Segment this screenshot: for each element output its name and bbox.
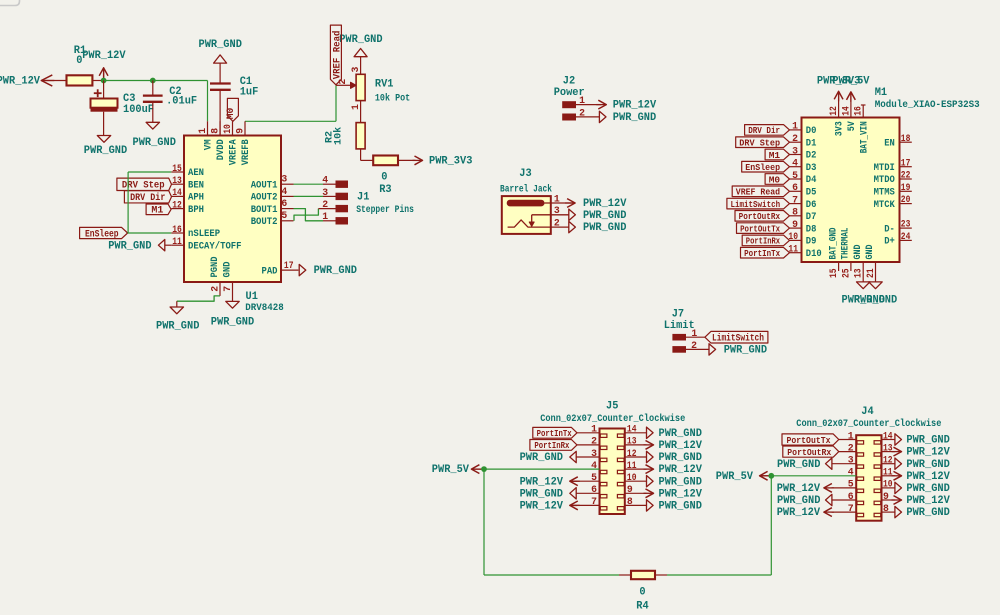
pin 11 DECAY/TOFF — [171, 236, 241, 252]
net label DRV Step (M1) — [736, 137, 790, 149]
svg-text:PGND: PGND — [209, 257, 221, 278]
label R1 — [74, 45, 87, 57]
pin 14 5V — [840, 94, 858, 132]
svg-text:J1: J1 — [357, 192, 370, 204]
svg-text:PWR_GND: PWR_GND — [659, 428, 703, 440]
svg-text:PWR_GND: PWR_GND — [659, 476, 703, 488]
svg-text:7: 7 — [591, 496, 597, 507]
svg-text:M0: M0 — [769, 174, 781, 185]
pin name VREFA — [228, 139, 240, 166]
label R4 — [636, 600, 649, 612]
svg-text:PWR_GND: PWR_GND — [659, 452, 703, 464]
svg-text:PWR_GND: PWR_GND — [583, 210, 627, 222]
svg-text:Limit: Limit — [664, 320, 695, 332]
value 0 (R3) — [381, 172, 387, 184]
svg-text:PWR_12V: PWR_12V — [613, 100, 657, 112]
J4 pin 4 wire — [771, 467, 856, 478]
ground PWR_GND (C2) — [133, 122, 177, 149]
svg-text:BAT_VIN: BAT_VIN — [858, 121, 870, 153]
svg-text:18: 18 — [901, 133, 911, 144]
svg-text:R4: R4 — [636, 600, 649, 612]
svg-text:10: 10 — [222, 124, 233, 134]
pin name VM — [203, 139, 215, 150]
net label VREF Read (M1) — [732, 186, 789, 198]
svg-text:DRV8428: DRV8428 — [245, 302, 283, 314]
potentiometer RV1 — [356, 57, 365, 123]
svg-text:J4: J4 — [861, 406, 874, 418]
svg-text:12: 12 — [172, 199, 182, 210]
M1 pin 3 D2 — [790, 145, 817, 161]
J3 sleeve arrow — [529, 215, 569, 227]
ground PWR_GND (J3.3) — [569, 209, 627, 222]
svg-text:AEN: AEN — [188, 167, 204, 179]
net label M0 — [226, 98, 238, 121]
M1 pin 11 D10 — [788, 244, 821, 260]
J5 pin 12 + PWR_GND — [625, 448, 703, 464]
svg-text:PWR_5V: PWR_5V — [832, 76, 870, 88]
svg-text:PWR_5V: PWR_5V — [432, 464, 470, 476]
svg-text:3: 3 — [848, 455, 854, 466]
M1 pin 24 D+ — [884, 231, 912, 248]
M1 pin 20 MTCK — [874, 194, 912, 211]
M1 pin 18 EN — [884, 133, 912, 150]
svg-text:Conn_02x07_Counter_Clockwise: Conn_02x07_Counter_Clockwise — [796, 418, 941, 430]
connector J3 labels — [500, 168, 552, 195]
power symbol PWR_12V (J2.1) — [596, 100, 656, 112]
svg-text:VREFA: VREFA — [228, 139, 240, 166]
net label M0 (M1) — [765, 174, 789, 186]
svg-text:DRV Dir: DRV Dir — [130, 192, 165, 204]
ground PWR_GND (M1 pin13) — [842, 282, 886, 306]
svg-text:GND: GND — [221, 262, 233, 278]
label J4 — [861, 406, 874, 418]
wire BOUT1 to J1.1 — [294, 209, 336, 221]
power symbol PWR_3V3 (right of R3) — [398, 156, 472, 168]
wire EnSleep to AEN — [128, 172, 171, 233]
wire J2.1 — [576, 104, 601, 106]
net label EnSleep (M1) — [742, 161, 790, 173]
svg-text:1: 1 — [554, 193, 560, 204]
value .01uF — [166, 96, 197, 108]
svg-text:5: 5 — [848, 479, 854, 490]
svg-text:VM: VM — [203, 139, 215, 150]
label U1 — [246, 291, 259, 303]
svg-text:PortInTx: PortInTx — [537, 428, 572, 439]
ground PWR_GND (U1 GND pin) — [211, 301, 255, 328]
pin 16 nSLEEP — [171, 224, 220, 240]
svg-text:10: 10 — [627, 472, 637, 483]
pin 9 VREFB — [234, 121, 245, 135]
svg-text:7: 7 — [848, 503, 854, 514]
net label LimitSwitch — [705, 331, 768, 344]
svg-text:M1: M1 — [151, 206, 163, 217]
svg-text:6: 6 — [848, 491, 854, 502]
resistor R1 — [67, 75, 93, 85]
svg-text:100uF: 100uF — [123, 104, 154, 116]
svg-text:14: 14 — [840, 106, 851, 116]
svg-text:PWR_GND: PWR_GND — [906, 459, 950, 471]
svg-text:6: 6 — [281, 198, 287, 209]
pin 17 PAD — [262, 260, 299, 277]
svg-text:4: 4 — [848, 467, 854, 478]
J5 pin 13 + PWR_12V — [625, 436, 703, 452]
svg-text:D2: D2 — [806, 150, 817, 162]
svg-text:BAT_GND: BAT_GND — [827, 228, 839, 260]
svg-text:J3: J3 — [519, 168, 531, 180]
svg-text:D-: D- — [884, 223, 895, 235]
svg-text:PWR_GND: PWR_GND — [108, 241, 152, 253]
label DRV Dir (U1) — [124, 191, 171, 205]
svg-text:THERMAL: THERMAL — [840, 228, 852, 260]
power flag PWR_12V (left of R1) — [0, 75, 67, 88]
M1 pin 19 MTMS — [874, 182, 912, 199]
svg-text:12: 12 — [828, 106, 839, 116]
svg-text:5: 5 — [591, 472, 597, 483]
value 0 (R1) — [76, 55, 82, 67]
svg-text:3: 3 — [281, 174, 287, 185]
svg-text:D10: D10 — [806, 248, 822, 260]
M1 pin 7 D6 — [790, 194, 817, 210]
wire R1 to node — [92, 80, 103, 82]
svg-text:PWR_GND: PWR_GND — [84, 145, 128, 157]
wire J7.1 — [686, 336, 705, 338]
svg-text:11: 11 — [627, 460, 637, 471]
junction node A — [101, 78, 107, 84]
J5 pin 1 + PortInTx — [533, 424, 600, 440]
svg-text:13: 13 — [172, 175, 182, 186]
ground PWR_GND (DECAY/TOFF) — [108, 240, 171, 253]
svg-text:24: 24 — [901, 231, 911, 242]
svg-text:1: 1 — [350, 104, 361, 110]
svg-text:13: 13 — [883, 442, 893, 453]
RV1 pin 1 number — [350, 104, 361, 110]
svg-text:M0: M0 — [226, 108, 237, 120]
svg-text:PWR_GND: PWR_GND — [659, 501, 703, 513]
svg-text:BOUT1: BOUT1 — [251, 204, 278, 216]
J5 pin 6 + PWR_GND — [520, 484, 600, 500]
svg-text:15: 15 — [828, 268, 839, 278]
J5 pin 8 + PWR_GND — [625, 496, 703, 512]
label C2 — [169, 86, 181, 98]
net label VREF Read (vertical) — [330, 25, 343, 85]
ground PWR_GND (PAD) — [299, 264, 357, 277]
svg-text:D6: D6 — [806, 199, 817, 211]
value 10k Pot — [375, 93, 410, 105]
resistor R2 — [356, 123, 365, 149]
net label PortOutTx (M1) — [737, 223, 790, 235]
svg-text:2: 2 — [848, 442, 854, 453]
svg-text:EnSleep: EnSleep — [745, 162, 780, 173]
M1 pin 2 D1 — [790, 133, 817, 149]
label EnSleep (U1) — [80, 227, 128, 240]
svg-text:11: 11 — [172, 236, 182, 247]
svg-text:D0: D0 — [806, 125, 817, 137]
power symbol PWR_5V (J5) — [432, 464, 484, 476]
label C3 — [123, 93, 135, 105]
svg-text:1: 1 — [591, 424, 597, 435]
M1 pin 1 D0 — [790, 121, 817, 137]
svg-text:5: 5 — [281, 210, 287, 221]
wire PGND to ground — [177, 296, 220, 301]
connector J7 pin 2 pad — [672, 340, 697, 353]
svg-text:25: 25 — [840, 268, 851, 278]
value Conn_02x07_Counter_Clockwise (J4) — [796, 418, 941, 430]
svg-text:1: 1 — [792, 121, 798, 132]
svg-text:D3: D3 — [806, 162, 817, 174]
wire AOUT2 to J1.3 — [294, 195, 336, 197]
J4 pin 3 + PWR_GND — [777, 455, 856, 471]
svg-text:D+: D+ — [884, 236, 895, 248]
svg-text:PortInTx: PortInTx — [744, 248, 780, 259]
svg-text:J2: J2 — [563, 76, 575, 88]
value Conn_02x07_Counter_Clockwise (J5) — [540, 413, 685, 425]
J4 pin 11 + PWR_12V — [882, 467, 951, 483]
pin 15 AEN — [171, 163, 204, 179]
svg-text:4: 4 — [591, 460, 597, 471]
ground PWR_GND (J7.2) — [709, 344, 768, 357]
svg-text:AOUT1: AOUT1 — [251, 179, 278, 191]
junction J5 pin4 — [481, 466, 487, 472]
label C1 — [240, 76, 253, 88]
capacitor C2 — [143, 81, 163, 123]
M1 pin 21 GND — [864, 245, 876, 282]
J4 pin 7 + PWR_12V — [777, 503, 857, 519]
J3 sleeve zigzag — [508, 220, 569, 227]
J5 pin 7 + PWR_12V — [520, 496, 600, 512]
svg-text:1: 1 — [197, 128, 208, 134]
svg-text:PWR_GND: PWR_GND — [211, 317, 255, 329]
J4 pin 8 + PWR_GND — [882, 503, 951, 519]
svg-text:LimitSwitch: LimitSwitch — [731, 199, 781, 210]
svg-text:DVDD: DVDD — [215, 139, 227, 160]
RV1 pin 2 number — [337, 79, 348, 85]
svg-text:8: 8 — [627, 496, 633, 507]
M1 pin 5 D4 — [790, 170, 817, 186]
net label M1 (M1) — [765, 149, 789, 161]
power symbol PWR_3V3 (M1) — [817, 76, 860, 102]
value Module_XIAO-ESP32S3 — [875, 99, 980, 111]
svg-text:8: 8 — [883, 503, 889, 514]
svg-text:PWR_12V: PWR_12V — [82, 50, 126, 62]
svg-text:Stepper Pins: Stepper Pins — [356, 204, 414, 216]
svg-text:VREFB: VREFB — [240, 139, 252, 166]
svg-text:PWR_12V: PWR_12V — [906, 447, 950, 459]
svg-text:PWR_GND: PWR_GND — [777, 495, 821, 507]
value 100uF — [123, 104, 154, 116]
J4 pin 6 + PWR_GND — [777, 491, 856, 507]
ground PWR_GND (C3) — [84, 136, 128, 158]
svg-text:2: 2 — [591, 436, 597, 447]
svg-text:PWR_GND: PWR_GND — [156, 321, 200, 333]
J3 pin 2 — [554, 218, 560, 229]
svg-text:1uF: 1uF — [240, 87, 259, 99]
pin 5 BOUT2 — [251, 210, 294, 228]
svg-text:J7: J7 — [672, 309, 684, 321]
svg-text:13: 13 — [853, 268, 864, 278]
svg-text:PWR_5V: PWR_5V — [716, 471, 754, 483]
J4 pin 1 + PortOutTx — [782, 430, 856, 446]
svg-text:PWR_12V: PWR_12V — [659, 464, 703, 476]
sheet corner decoration (gray) — [0, 0, 20, 6]
value DRV8428 — [245, 302, 283, 314]
svg-text:23: 23 — [901, 219, 911, 230]
M1 pin 22 MTDO — [874, 170, 912, 187]
svg-text:PWR_3V3: PWR_3V3 — [429, 156, 472, 168]
svg-text:D9: D9 — [806, 236, 817, 248]
svg-text:D1: D1 — [806, 137, 817, 149]
label M1 (U1) — [146, 204, 171, 217]
svg-text:12: 12 — [883, 455, 893, 466]
connector J1 pin 2 pad — [322, 199, 348, 212]
svg-text:6: 6 — [591, 484, 597, 495]
J3 tip contact bar — [507, 200, 545, 207]
svg-text:2: 2 — [210, 286, 221, 292]
svg-text:LimitSwitch: LimitSwitch — [712, 333, 764, 345]
svg-text:3: 3 — [591, 448, 597, 459]
IC U1 body — [184, 136, 281, 283]
wire AOUT1 to J1.4 — [294, 183, 336, 185]
label R2 — [324, 131, 336, 143]
module M1 body — [802, 118, 900, 263]
svg-text:MTMS: MTMS — [874, 187, 895, 199]
J4 pin pads — [857, 441, 881, 517]
net label PortOutRx (M1) — [735, 211, 790, 223]
svg-text:PWR_12V: PWR_12V — [906, 495, 950, 507]
svg-text:D4: D4 — [806, 174, 817, 186]
pin 2 PGND — [209, 257, 221, 296]
svg-text:PWR_GND: PWR_GND — [314, 265, 358, 277]
J4 pin 12 + PWR_GND — [882, 455, 951, 471]
connector J1 labels — [356, 192, 414, 217]
svg-text:.01uF: .01uF — [166, 96, 197, 108]
J5 pin 14 + PWR_GND — [625, 424, 703, 440]
ground PWR_GND (C1, inverted) — [199, 39, 243, 63]
svg-text:GND: GND — [864, 245, 876, 260]
wire J5 5V down — [483, 469, 485, 575]
svg-text:5V: 5V — [846, 121, 858, 132]
svg-text:17: 17 — [284, 260, 294, 271]
pin 6 BOUT1 — [251, 198, 294, 216]
svg-text:PWR_GND: PWR_GND — [520, 452, 564, 464]
J4 pin 5 + PWR_12V — [777, 479, 857, 495]
svg-text:MTDO: MTDO — [874, 174, 895, 186]
svg-text:PWR_GND: PWR_GND — [613, 112, 657, 124]
svg-text:PWR_12V: PWR_12V — [520, 476, 564, 488]
svg-text:R3: R3 — [379, 184, 391, 196]
wire BOUT2 to J1.2 — [294, 209, 336, 221]
svg-text:1: 1 — [848, 430, 854, 441]
svg-text:9: 9 — [234, 128, 245, 134]
J4 pin 2 + PortOutRx — [783, 442, 856, 458]
svg-text:PortInRx: PortInRx — [746, 236, 780, 247]
svg-text:D5: D5 — [806, 187, 817, 199]
wire rail left — [484, 574, 619, 576]
M1 pin 10 D9 — [788, 231, 816, 247]
value 10k (R2) — [332, 127, 344, 145]
pin 3 AOUT1 — [251, 174, 294, 192]
svg-text:PWR_12V: PWR_12V — [777, 507, 821, 519]
svg-text:Conn_02x07_Counter_Clockwise: Conn_02x07_Counter_Clockwise — [540, 413, 685, 425]
svg-text:PWR_GND: PWR_GND — [133, 137, 177, 149]
svg-text:14: 14 — [883, 430, 893, 441]
svg-text:J5: J5 — [606, 401, 618, 413]
svg-text:BOUT2: BOUT2 — [251, 216, 278, 228]
svg-text:3: 3 — [554, 205, 560, 216]
connector J2 pin 2 pad — [562, 107, 585, 120]
wire J2.2 — [576, 116, 599, 118]
ground PWR_GND (PGND net) — [156, 301, 200, 332]
svg-text:RV1: RV1 — [375, 79, 394, 91]
svg-text:PortOutRx: PortOutRx — [787, 447, 831, 458]
J5 pin 11 + PWR_12V — [625, 460, 703, 476]
RV1 wiper arrow — [336, 82, 356, 88]
power symbol PWR_5V (J4) — [716, 471, 772, 483]
J3 pin 3 — [554, 205, 560, 216]
capacitor C1 — [210, 63, 231, 135]
svg-text:D8: D8 — [806, 223, 817, 235]
J5 pin 3 + PWR_GND — [520, 448, 600, 464]
svg-text:BEN: BEN — [188, 179, 204, 191]
svg-text:PWR_12V: PWR_12V — [906, 471, 950, 483]
connector J1 pin 1 pad — [322, 211, 348, 224]
connector J7 pin 1 pad — [672, 328, 697, 341]
svg-text:PWR_12V: PWR_12V — [583, 198, 627, 210]
svg-text:16: 16 — [172, 224, 182, 235]
value 1uF — [240, 87, 259, 99]
ground PWR_GND (RV1 top, inverted) — [339, 34, 383, 57]
svg-text:VREF Read: VREF Read — [332, 31, 344, 80]
svg-text:BPH: BPH — [188, 204, 204, 216]
M1 pin 25 THERMAL — [840, 228, 852, 279]
svg-text:19: 19 — [901, 182, 911, 193]
junction node B — [150, 78, 156, 84]
wire rail right — [667, 574, 771, 576]
svg-text:4: 4 — [281, 186, 287, 197]
svg-text:DRV Dir: DRV Dir — [748, 125, 780, 136]
J5 pin 9 + PWR_12V — [625, 484, 703, 500]
label R3 — [379, 184, 391, 196]
svg-text:PortOutRx: PortOutRx — [739, 211, 781, 222]
svg-text:PWR_GND: PWR_GND — [906, 483, 950, 495]
resistor R3 — [373, 156, 398, 166]
svg-text:20: 20 — [901, 194, 911, 205]
svg-text:EN: EN — [884, 137, 895, 149]
svg-text:15: 15 — [172, 163, 182, 174]
svg-text:PWR_GND: PWR_GND — [777, 459, 821, 471]
M1 pin 15 BAT_GND — [827, 228, 839, 279]
svg-text:7: 7 — [792, 194, 798, 205]
svg-text:16: 16 — [853, 106, 864, 116]
svg-text:EnSleep: EnSleep — [85, 228, 119, 240]
pin name DVDD — [215, 139, 227, 160]
pin name VREFB — [240, 139, 252, 166]
svg-text:2: 2 — [792, 133, 798, 144]
svg-text:14: 14 — [172, 187, 182, 198]
connector J1 pin 4 pad — [322, 175, 348, 188]
M1 pin 17 MTDI — [874, 157, 912, 174]
svg-text:5: 5 — [792, 170, 798, 181]
pin 16 BAT_VIN — [853, 105, 871, 153]
J4 pin 14 + PWR_GND — [882, 430, 951, 446]
pin 13 BEN — [171, 175, 204, 191]
label DRV Step (U1) — [117, 178, 172, 192]
J5 pin 5 + PWR_12V — [520, 472, 600, 488]
svg-text:21: 21 — [865, 268, 876, 278]
svg-text:10k: 10k — [332, 127, 344, 145]
net label PortInRx (M1) — [742, 235, 789, 247]
svg-text:PWR_GND: PWR_GND — [906, 507, 950, 519]
label J5 — [606, 401, 618, 413]
